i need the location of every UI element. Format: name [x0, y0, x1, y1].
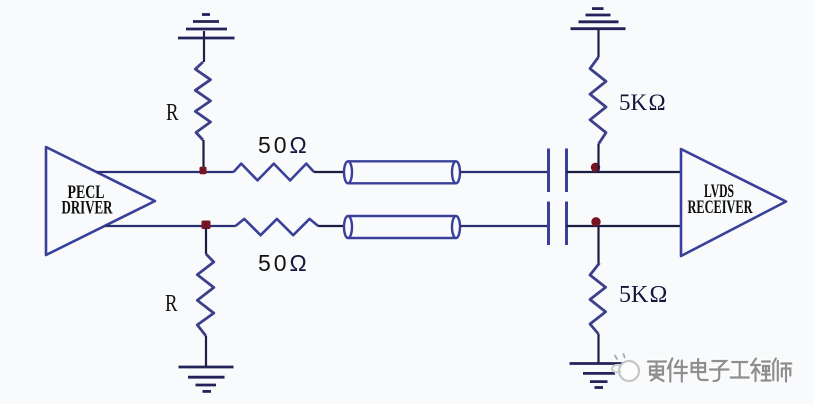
wire J4 down to R5: [597, 226, 599, 264]
svg-text:Ω: Ω: [290, 132, 307, 158]
ground GND4 bottom-right: [570, 364, 632, 388]
wire J2 down to R6: [205, 228, 207, 254]
svg-text:DRIVER: DRIVER: [62, 198, 113, 219]
node junction J1: [200, 167, 207, 174]
wire GND1 to R1: [203, 31, 205, 62]
capacitor C2 (bottom): [549, 202, 567, 246]
resistor R5 5K (bottom-right): [590, 263, 606, 334]
wire C2 to receiver: [567, 225, 682, 227]
capacitor C1 (top): [549, 149, 567, 193]
watermark text 硬件电子工程师: [647, 357, 790, 380]
resistor R3 5K (top-right): [590, 57, 606, 144]
ground GND2 top-right: [571, 9, 626, 29]
wire R1 to node: [202, 140, 204, 172]
svg-text:Ω: Ω: [649, 90, 666, 115]
wire C1 to receiver: [567, 171, 682, 173]
resistor R6 (bottom-left R): [197, 254, 214, 336]
wire R3 to GND2: [597, 29, 599, 57]
wire R2 to T1: [314, 171, 344, 173]
wire T2 to C2: [460, 225, 548, 227]
wire R4 to T2: [318, 225, 344, 227]
svg-text:Ω: Ω: [290, 250, 307, 276]
receiver U2 LVDS RECEIVER: [681, 149, 786, 256]
svg-text:5K: 5K: [619, 282, 649, 308]
resistor R2 50ohm (top): [234, 164, 315, 181]
wire driver out+ to R2: [97, 171, 234, 173]
svg-text:50: 50: [258, 132, 290, 158]
svg-text:50: 50: [258, 250, 290, 276]
resistor R4 50ohm (bottom): [236, 219, 319, 235]
ground GND3 bottom-left: [179, 367, 234, 391]
svg-text:5K: 5K: [619, 90, 648, 115]
wire T1 to C1: [460, 171, 548, 173]
wire R5 to GND4: [597, 334, 599, 363]
svg-text:R: R: [166, 100, 179, 126]
driver U1 PECL DRIVER: [46, 147, 155, 255]
svg-text:RECEIVER: RECEIVER: [688, 197, 753, 218]
svg-text:R: R: [165, 291, 178, 317]
node junction J4: [591, 217, 600, 226]
wire driver out- to R4: [105, 225, 236, 227]
transmission line T1 (top): [344, 161, 460, 183]
node junction J2: [202, 221, 211, 230]
node junction J3: [591, 163, 600, 172]
wire R6 to GND3: [205, 336, 207, 366]
ground GND1 top-left: [178, 15, 235, 39]
wire J3 up to R3: [597, 144, 599, 171]
transmission line T2 (bottom): [344, 216, 460, 238]
svg-text:Ω: Ω: [650, 282, 668, 308]
resistor R1 (top-left R): [195, 62, 210, 140]
watermark logo icon: [612, 354, 640, 381]
